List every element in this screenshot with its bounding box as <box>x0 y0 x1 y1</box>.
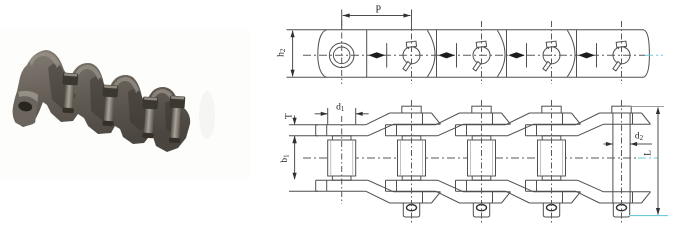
svg-text:h2: h2 <box>277 48 288 57</box>
short joint line 4 <box>596 43 598 67</box>
bushing ends at pin 2 (plan view) <box>402 136 421 180</box>
plan view horizontal centerline <box>303 157 638 159</box>
bushing ends at pin 1 (plan view) <box>332 136 351 180</box>
pin 3 vertical centerline (plan view) <box>481 100 483 223</box>
svg-text:d2: d2 <box>635 132 644 143</box>
pin P2 with cotter (side view) <box>403 41 420 71</box>
weld diamond symbol 1 <box>368 52 385 58</box>
h2 extension line top <box>287 29 327 31</box>
dimension b1 <box>289 190 318 192</box>
link 1 sidebars (plan view) <box>316 113 441 203</box>
link 2 sidebars (plan view) <box>386 113 511 203</box>
pin P3 bottom head with cotter hole (plan view) <box>473 203 489 217</box>
pin 2 vertical centerline (plan view) <box>411 100 413 223</box>
chain photo: hump highlights <box>29 52 175 104</box>
sidebar end arc at joint 4 <box>567 30 575 77</box>
pin P4 top head (plan view) <box>542 106 561 113</box>
link joint line 2 <box>436 30 438 78</box>
short joint line 1 <box>386 43 388 67</box>
dimension d1 <box>327 108 329 125</box>
pin 1 vertical centerline (plan view) <box>341 116 343 204</box>
sidebar end arc at joint 2 <box>427 30 435 77</box>
pin 2 vertical centerline (side view) <box>411 21 413 84</box>
pin P3 top head (plan view) <box>472 106 491 113</box>
roller R1 (plan view) <box>328 140 356 176</box>
link 3 sidebars (plan view) <box>456 113 581 203</box>
pin P4 with cotter (side view) <box>543 41 560 71</box>
svg-text:d1: d1 <box>336 103 345 114</box>
chain photo: pins with heads <box>60 72 78 113</box>
P extension line left <box>341 10 343 30</box>
svg-text:b1: b1 <box>280 154 291 163</box>
bushing B1 (end circle, side view) <box>329 43 354 68</box>
pin P3 with cotter (side view) <box>473 41 490 71</box>
side view sidebar outline <box>318 30 650 78</box>
P extension line right <box>411 10 413 30</box>
h2 extension line bottom <box>287 76 327 78</box>
top view horizontal centerline <box>303 54 645 56</box>
link joint line 4 <box>576 30 578 78</box>
chain photo: shadow pockets <box>48 63 182 136</box>
link 4 sidebars (plan view) <box>526 113 651 203</box>
svg-text:P: P <box>376 4 382 15</box>
weld diamond symbol 2 <box>438 52 455 58</box>
pin 4 vertical centerline (plan view) <box>551 100 553 223</box>
dimension T <box>289 124 318 126</box>
weld diamond symbol 3 <box>508 52 525 58</box>
pin 5 vertical centerline (plan view) <box>621 100 623 223</box>
chain photo: chain body silhouette <box>14 50 190 152</box>
bushing ends at pin 4 (plan view) <box>542 136 561 180</box>
weld diamond symbol 4 <box>578 52 595 58</box>
roller R2 (plan view) <box>398 140 426 176</box>
pin 5 vertical centerline (side view) <box>621 21 623 84</box>
pin P5 top head (plan view) <box>612 106 631 113</box>
dimension d2 <box>604 143 613 145</box>
pin 4 vertical centerline (side view) <box>551 21 553 84</box>
pin 1 vertical centerline (side view) <box>341 20 343 84</box>
dimension h2 <box>292 31 294 77</box>
svg-text:L: L <box>643 150 653 156</box>
end pin P5 shank (plan view) <box>612 113 614 202</box>
bushing ends at pin 3 (plan view) <box>472 136 491 180</box>
pin 3 vertical centerline (side view) <box>481 21 483 84</box>
short joint line 3 <box>526 43 528 67</box>
link joint line 3 <box>506 30 508 78</box>
chain photo: end link plate with slot hole <box>10 87 42 128</box>
pin P4 bottom head with cotter hole (plan view) <box>543 203 559 217</box>
pin P2 top head (plan view) <box>402 106 421 113</box>
roller R3 (plan view) <box>468 140 496 176</box>
chain photo background <box>0 30 250 180</box>
link joint line 1 <box>366 30 368 78</box>
sidebar end arc at joint 3 <box>497 30 505 77</box>
pin P5 bottom head with cotter hole (plan view) <box>613 203 629 217</box>
roller R4 (plan view) <box>538 140 566 176</box>
dimension L <box>625 105 664 107</box>
svg-text:T: T <box>285 113 295 119</box>
short joint line 2 <box>456 43 458 67</box>
pin P2 bottom head with cotter hole (plan view) <box>403 203 419 217</box>
pin P5 with cotter (side view) <box>613 41 630 71</box>
